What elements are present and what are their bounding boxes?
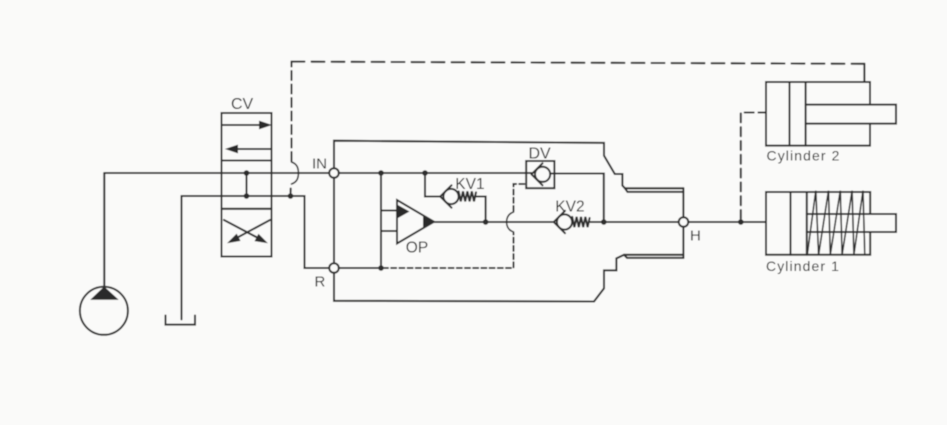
junction OP supply at R line (378, 265, 384, 271)
wire main line through block nose to H port (604, 221, 679, 223)
junction IN to KV1 branch (422, 170, 428, 176)
svg-text:R: R (315, 274, 326, 291)
cylinder 2 (766, 82, 896, 146)
svg-text:KV1: KV1 (455, 176, 484, 193)
junction valve P (244, 170, 250, 176)
wire pump outlet to P line (103, 173, 105, 288)
check valve KV2 (554, 211, 590, 233)
svg-text:Cylinder 2: Cylinder 2 (767, 148, 841, 164)
manifold block outline (334, 141, 683, 302)
junction pilot tap to cylinder 2 (738, 219, 744, 225)
wire P line pump to valve CV (104, 172, 221, 174)
svg-text:OP: OP (406, 239, 428, 256)
junction valve T (244, 193, 250, 199)
pilot line H to cylinder 2 cap side (dashed) (741, 113, 766, 220)
wire KV1 branch from IN line (425, 173, 440, 197)
wire OP out / main line to KV2 (434, 221, 554, 223)
wire H port to cylinder 1 (688, 221, 766, 223)
wire OP supply vertical (380, 173, 382, 268)
wire KV2 out to junction (590, 221, 604, 223)
valve CV arrow right (position a) (223, 121, 271, 128)
wire KV1 out to main line (476, 197, 486, 223)
pilot line R to DV (dashed) (383, 184, 526, 268)
pump P1 (80, 287, 128, 335)
wire OP upper branch (381, 209, 397, 211)
port H (679, 217, 689, 227)
wire through valve center (T) (222, 195, 272, 197)
valve CV arrow left (position a) (227, 145, 272, 152)
port IN (329, 168, 339, 178)
wire tank line to valve CV (182, 195, 222, 197)
svg-text:IN: IN (312, 156, 327, 173)
wire IN port to DV (339, 172, 532, 174)
wire valve to IN port (272, 172, 330, 174)
tank T1 (166, 196, 196, 325)
wire valve T to junction and R port feeder (272, 196, 329, 268)
op-amp style element OP (397, 200, 434, 244)
pilot hop over main line (507, 212, 514, 232)
svg-text:H: H (690, 228, 701, 245)
valve CV crossed arrows (position b) (224, 220, 270, 243)
valve CV body (222, 113, 272, 257)
wire through valve center (P) (222, 172, 272, 174)
junction DV/KV2 out (601, 219, 607, 225)
junction KV1/OP out (483, 219, 489, 225)
pilot stub to junction (289, 189, 291, 196)
wire R port to junction (339, 267, 381, 269)
wire OP lower branch (381, 230, 397, 232)
wire valve internal connector (245, 173, 247, 196)
port R (329, 263, 339, 273)
wire DV out down to main line (550, 174, 604, 223)
svg-text:Cylinder 1: Cylinder 1 (766, 258, 840, 274)
junction pilot tap on T line (288, 193, 294, 199)
valve DV body (526, 161, 554, 188)
pilot line CV area up and over to cylinder 2 rod side (dashed) (292, 62, 865, 161)
svg-text:CV: CV (231, 96, 254, 113)
pilot hop over IN wire (292, 162, 299, 184)
svg-text:DV: DV (529, 146, 552, 163)
wire pilot drop into cylinder 2 top (863, 64, 865, 82)
svg-text:KV2: KV2 (555, 199, 584, 216)
junction IN to OP branch (378, 170, 384, 176)
check valve KV1 (440, 185, 476, 207)
cylinder 1 (766, 191, 896, 255)
